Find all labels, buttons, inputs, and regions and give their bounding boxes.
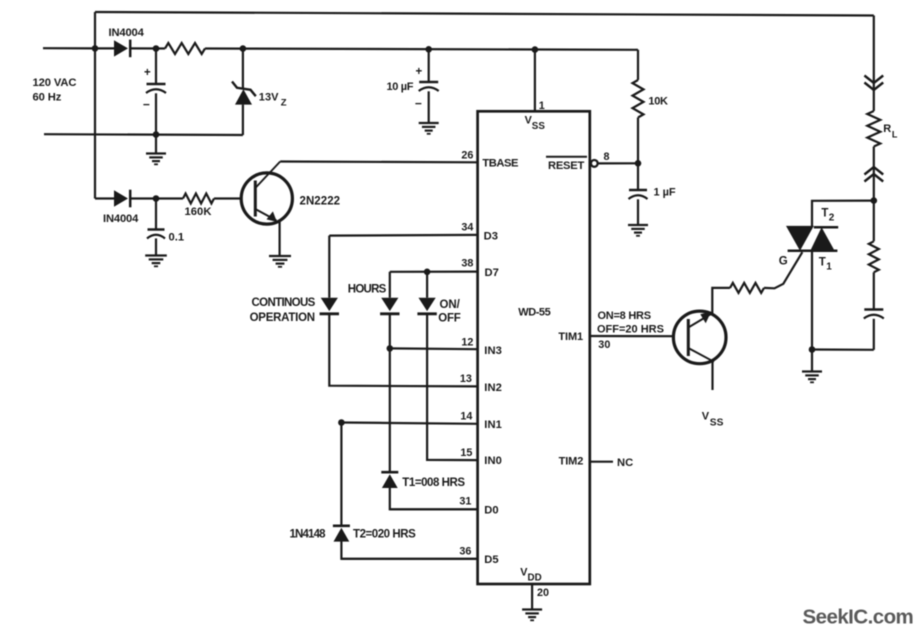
pin number 38 (461, 258, 473, 270)
label ON=8 HRS (598, 310, 651, 322)
wire: ON/OFF diode to IN0 pin 15 (427, 314, 478, 460)
wire: D3 branch down to CONT-OP diode (328, 236, 330, 298)
label 160K (185, 206, 212, 218)
label − (C2) (415, 97, 422, 111)
label T2=020 HRS (353, 529, 416, 541)
label ON/OFF (438, 299, 460, 324)
wire: pin 20 VDD to ground (531, 584, 533, 610)
wire: D7 to HOURS diode (389, 272, 391, 298)
pin name IN3 (484, 345, 502, 357)
pin name TIM2 (559, 456, 584, 468)
wire: RL to snubber resistor segment (873, 147, 875, 242)
label + (C1) (144, 67, 151, 79)
ground (below C3) (145, 256, 167, 267)
node junction RESET / 10K / 1uF (635, 160, 642, 167)
pin number 13 (460, 373, 472, 385)
wire: pin 1 VSS from +V rail (534, 50, 536, 112)
svg-text:SeekIC.com: SeekIC.com (803, 606, 914, 629)
node junction triac T1 / snubber return (809, 346, 816, 353)
svg-text:T2=020 HRS: T2=020 HRS (353, 529, 416, 541)
wire: ground stub (811, 350, 813, 372)
svg-text:D7: D7 (485, 267, 499, 279)
svg-text:V: V (702, 411, 710, 423)
svg-text:30: 30 (598, 339, 610, 351)
wire: AC input line (top) (43, 47, 95, 49)
wire: Q1 emitter down (279, 221, 281, 257)
node junction IN3 / diode chain (387, 345, 394, 352)
svg-text:13V: 13V (259, 92, 279, 104)
wire: bus to diode D3 (95, 197, 114, 199)
ground (triac T1) (802, 372, 822, 383)
svg-text:NC: NC (617, 457, 633, 469)
svg-text:SS: SS (710, 418, 724, 429)
svg-text:OFF: OFF (438, 312, 460, 324)
svg-text:60 Hz: 60 Hz (33, 92, 62, 104)
label 1 µF (654, 187, 676, 199)
svg-text:SS: SS (532, 121, 546, 132)
pin name IN2 (484, 382, 502, 394)
svg-text:2N2222: 2N2222 (300, 196, 341, 208)
label CONTINOUS OPERATION (250, 297, 316, 324)
break chevrons (bottom, pointing up) (864, 167, 883, 182)
svg-text:DD: DD (528, 573, 542, 584)
break chevrons (top, pointing down) (864, 76, 883, 91)
label 2N2222 (300, 196, 341, 208)
wire: IN3 pin wire (390, 347, 478, 350)
wire: T1 diode to D0 pin 31 (390, 488, 478, 509)
label NC (617, 457, 633, 469)
wire: D5 pin wire (341, 558, 477, 560)
svg-text:T: T (821, 208, 828, 220)
svg-text:D5: D5 (484, 554, 498, 566)
label 10 µF (387, 81, 414, 93)
pin number 31 (459, 496, 471, 508)
node junction AC bottom / C1 ground (153, 131, 160, 138)
resistor R4 (gate series) (730, 283, 764, 293)
label 1N4148 (290, 529, 327, 541)
label OFF=20 HRS (597, 323, 664, 335)
svg-text:12: 12 (461, 337, 473, 349)
label 120 VAC / 60 Hz (33, 77, 77, 104)
wire: ON/OFF diode drop (426, 272, 428, 298)
capacitor C2 10uF (419, 49, 439, 122)
label RL (883, 123, 898, 140)
svg-text:ON/: ON/ (440, 299, 461, 311)
node junction +V rail / 10uF cap (425, 46, 432, 53)
wire: +V rail node C to 10K corner (243, 49, 638, 50)
wire: right rail top segment (873, 16, 875, 112)
svg-text:R: R (883, 123, 891, 135)
pin number 8 (604, 151, 610, 163)
pin name IN0 (484, 455, 502, 467)
pin number 1 (539, 100, 545, 112)
pin name TBASE (482, 158, 519, 170)
label + (C2) (416, 66, 423, 78)
wire: TIM2 to NC (590, 461, 613, 463)
svg-text:T1=008 HRS: T1=008 HRS (402, 477, 465, 489)
wire: RESET bubble to RC node (598, 162, 638, 164)
wire: R5 to snubber cap (873, 272, 875, 309)
svg-text:+: + (144, 67, 151, 79)
resistor R1 (series, unlabeled) (165, 43, 205, 54)
resistor R5 (snubber) (869, 241, 879, 272)
wire: top feedback rail from node A to RL rail (95, 12, 874, 16)
node junction D7 / ON-OFF diode (424, 269, 431, 276)
svg-text:1: 1 (539, 100, 545, 112)
svg-text:−: − (415, 97, 422, 111)
diode D3 1N4004 (bottom) (114, 190, 130, 208)
label − (C1) (143, 98, 150, 112)
svg-text:160K: 160K (185, 206, 212, 218)
svg-text:Z: Z (281, 97, 287, 108)
label 13VZ (259, 92, 287, 109)
pin number 34 (461, 222, 473, 234)
svg-text:38: 38 (461, 258, 473, 270)
wire: left vertical bus at x=95 (94, 12, 96, 199)
resistor R3 10K (633, 50, 644, 164)
resistor RL (load) (867, 111, 880, 147)
pin name RESET (active low) (546, 157, 587, 172)
svg-text:OPERATION: OPERATION (250, 312, 315, 324)
svg-text:0.1: 0.1 (169, 231, 185, 243)
wire: AC input line (bottom) (44, 133, 243, 136)
svg-text:31: 31 (459, 496, 471, 508)
pin 8 inversion bubble (591, 160, 598, 167)
node junction D3 out / 0.1 cap (153, 195, 160, 202)
svg-text:TIM1: TIM1 (558, 331, 583, 343)
svg-text:8: 8 (604, 151, 610, 163)
pin name D3 (484, 231, 498, 243)
pin number 26 (461, 149, 473, 161)
diode D4 (CONTINOUS OPERATION) (320, 298, 339, 314)
diode D6 (ON/OFF) (417, 298, 436, 314)
label IN4004 (top diode) (109, 27, 145, 39)
svg-text:+: + (416, 66, 423, 78)
IC U1 WD-55 body (478, 111, 590, 584)
svg-text:IN4004: IN4004 (109, 27, 145, 39)
capacitor C3 0.1 (147, 199, 165, 256)
pin name VSS (525, 115, 546, 133)
ground (below C4) (628, 225, 648, 236)
wire: HOURS diode to IN3 node (389, 314, 391, 349)
svg-text:IN1: IN1 (484, 419, 502, 431)
svg-text:L: L (892, 130, 898, 140)
pin name VDD (520, 567, 542, 584)
pin number 12 (461, 337, 473, 349)
label VSS (Q2 collector) (702, 411, 724, 429)
svg-text:D3: D3 (484, 231, 498, 243)
svg-text:RESET: RESET (548, 160, 584, 172)
zener diode D2 13VZ (232, 49, 256, 135)
diode D7b T1=008 HRS (381, 472, 398, 488)
wire: D4 to IN2 pin 13 (329, 314, 477, 387)
svg-text:10K: 10K (648, 96, 668, 108)
node C junction (zener top) (240, 45, 247, 52)
label 0.1 (169, 231, 185, 243)
svg-text:10 µF: 10 µF (387, 81, 414, 93)
triac Q3 (786, 226, 838, 251)
svg-text:OFF=20 HRS: OFF=20 HRS (597, 323, 664, 335)
svg-text:TBASE: TBASE (482, 158, 519, 170)
svg-text:36: 36 (459, 546, 471, 558)
svg-text:34: 34 (461, 222, 473, 234)
svg-text:2: 2 (829, 213, 835, 224)
svg-text:IN2: IN2 (484, 382, 502, 394)
svg-text:15: 15 (460, 447, 472, 459)
ground (Q1 emitter) (269, 256, 291, 267)
svg-text:IN0: IN0 (484, 455, 502, 467)
wire: D3 to resistor R2 (131, 197, 184, 199)
wire: RL node to triac T2 (812, 201, 874, 227)
ground (VDD pin 20) (522, 610, 542, 621)
svg-text:ON=8 HRS: ON=8 HRS (598, 310, 651, 322)
label 10K (648, 96, 668, 108)
pin name IN1 (484, 419, 502, 431)
wire: node A to diode D1 (95, 47, 114, 49)
resistor R2 160K (183, 194, 214, 204)
wire: snubber return horizontal (812, 348, 874, 350)
wire: D1 to node B (131, 47, 166, 49)
capacitor C4 1uF (629, 163, 648, 224)
wire: Q2 emitter up to gate resistor (712, 288, 730, 314)
svg-text:14: 14 (460, 411, 472, 423)
svg-text:T: T (819, 257, 826, 269)
node junction RL rail / triac feed (871, 197, 878, 204)
wire: TIM1 pin 30 to Q2 base (590, 335, 674, 337)
wire: Q1 collector to TBASE pin 26 (280, 160, 477, 163)
wire: D7 pin wire (390, 271, 478, 273)
label WD-55 (518, 307, 550, 319)
pin number 15 (460, 447, 472, 459)
svg-text:13: 13 (460, 373, 472, 385)
svg-text:D0: D0 (484, 505, 498, 517)
wire: IN3 node down to T1 diode (389, 348, 391, 471)
wire: R2 to Q1 base (214, 197, 241, 199)
svg-text:20: 20 (537, 587, 549, 599)
wire: R4 to triac gate G (764, 252, 802, 288)
ground (below C1) (146, 154, 166, 165)
svg-text:−: − (143, 98, 150, 112)
wire: IN1 node down to 1N4148 (340, 423, 342, 526)
svg-text:IN4004: IN4004 (103, 213, 139, 225)
svg-text:26: 26 (461, 149, 473, 161)
diode D1 1N4004 (top) (114, 40, 130, 58)
label T1=008 HRS (402, 477, 465, 489)
label T2 (triac) (821, 208, 834, 224)
pin number 14 (460, 411, 472, 423)
pin name D5 (484, 554, 498, 566)
wire: triac T1 down to ground node (811, 251, 813, 350)
pin number 30 (598, 339, 610, 351)
pin number 36 (459, 546, 471, 558)
label G (gate) (779, 256, 788, 268)
diode D5 (HOURS) (380, 298, 399, 314)
svg-text:1 µF: 1 µF (654, 187, 676, 199)
pin name D0 (484, 505, 498, 517)
label T1 (triac) (819, 257, 833, 273)
wire: 1N4148 to D5 pin 36 (341, 542, 477, 559)
svg-text:TIM2: TIM2 (559, 456, 584, 468)
svg-text:IN3: IN3 (484, 345, 502, 357)
svg-text:120 VAC: 120 VAC (33, 77, 77, 89)
pin number 20 (537, 587, 549, 599)
node junction +V rail / pin1 VSS (532, 46, 539, 53)
node junction IN1 / 1N4148 (338, 419, 345, 426)
svg-text:HOURS: HOURS (348, 283, 387, 295)
svg-text:G: G (779, 256, 788, 268)
label IN4004 (bottom diode) (103, 213, 139, 225)
transistor Q1 2N2222 (241, 162, 292, 225)
wire: D0 pin wire (390, 508, 478, 510)
label HOURS (348, 283, 387, 295)
node A junction (AC top / bus) (92, 45, 99, 52)
transistor Q2 (output driver) (673, 311, 726, 364)
wire segment R1 to node C (205, 47, 243, 49)
wire: D3 pin to CONTINOUS OPERATION branch (329, 234, 477, 237)
pin name D7 (485, 267, 499, 279)
ground (below C2) (419, 123, 439, 134)
node B junction (filter cap top) (153, 45, 160, 52)
pin name TIM1 (558, 331, 583, 343)
svg-text:WD-55: WD-55 (518, 307, 550, 319)
wire: Q2 collector down to VSS (711, 361, 713, 390)
wire: IN1 pin wire (341, 423, 477, 424)
svg-text:1N4148: 1N4148 (290, 529, 327, 541)
capacitor C5 (snubber) (864, 310, 884, 319)
watermark SeekIC.com (803, 606, 914, 629)
capacitor C1 (filter, polarized) (146, 49, 166, 135)
svg-text:CONTINOUS: CONTINOUS (252, 297, 316, 309)
wire: C5 to return corner (873, 319, 875, 350)
wire: C1 node to ground (155, 135, 157, 154)
svg-text:1: 1 (826, 262, 832, 273)
diode D8 1N4148 (333, 526, 350, 542)
